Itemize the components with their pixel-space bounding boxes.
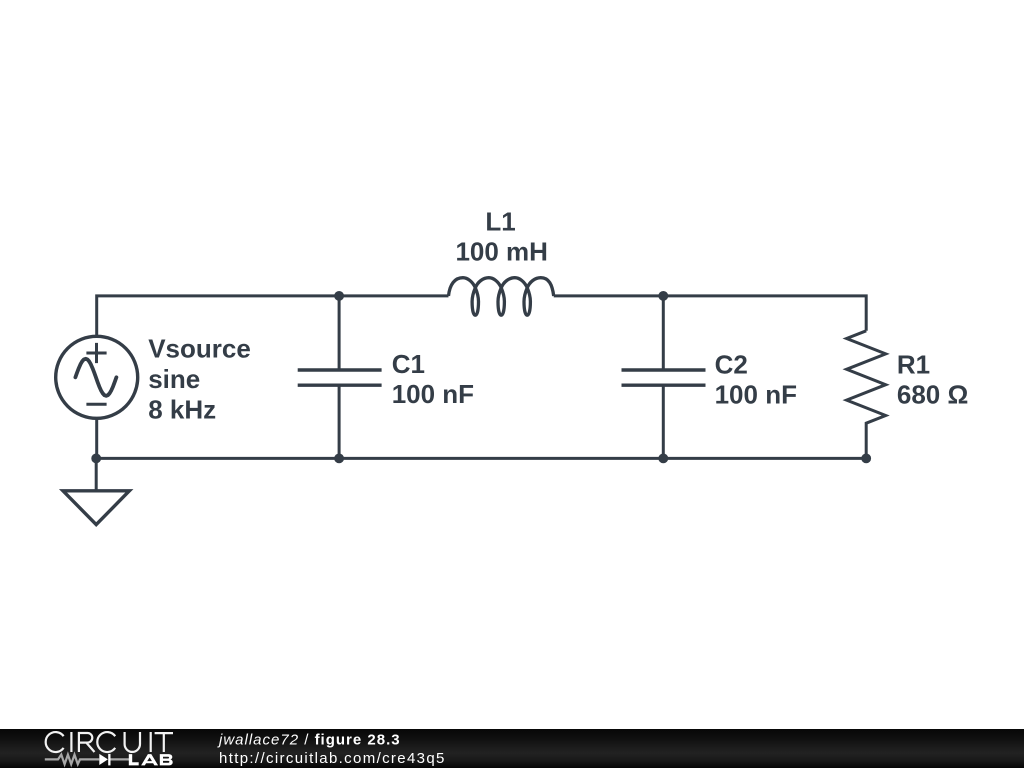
logo letter C xyxy=(46,732,64,752)
label C1 value 100 nF xyxy=(392,379,474,409)
capacitor C1 top lead xyxy=(338,296,341,370)
svg-text:http://circuitlab.com/cre43q5: http://circuitlab.com/cre43q5 xyxy=(219,750,446,767)
capacitor C2 bottom lead xyxy=(662,385,665,458)
label L1 value 100 mH xyxy=(455,236,548,266)
voltage source Vsource circle xyxy=(56,336,138,418)
capacitor C1 bottom lead xyxy=(338,385,341,458)
label L1 xyxy=(485,207,515,237)
wire top rail right: inductor to R1 corner xyxy=(554,296,867,331)
node: C2 top junction xyxy=(658,291,668,301)
logo letter T xyxy=(155,733,173,752)
node: C1 top junction xyxy=(334,291,344,301)
wire ground lead xyxy=(95,458,98,490)
wire source bottom lead xyxy=(95,418,98,459)
voltage source Vsource plus sign xyxy=(86,343,106,363)
capacitor C2 plates xyxy=(622,370,706,385)
logo letter R xyxy=(79,733,95,752)
label R1 xyxy=(897,350,930,380)
logo letter I (2nd) xyxy=(150,732,152,752)
logo diode symbol xyxy=(99,754,110,766)
voltage source Vsource minus sign xyxy=(86,403,106,406)
label C2 value 100 nF xyxy=(715,380,797,410)
footer url xyxy=(219,750,446,767)
node: source bottom junction xyxy=(91,454,101,464)
logo letter I xyxy=(70,732,72,752)
logo resistor squiggle xyxy=(45,755,100,765)
CircuitLab logo word CIRCUIT xyxy=(46,732,173,752)
node: C1 bottom junction xyxy=(334,454,344,464)
label Vsource type sine xyxy=(148,364,200,394)
label C1 xyxy=(392,349,425,379)
svg-text:jwallace72 / figure 28.3: jwallace72 / figure 28.3 xyxy=(217,731,401,748)
capacitor C2 top lead xyxy=(662,296,665,370)
capacitor C1 plates xyxy=(298,370,382,385)
wire top rail left: source top to inductor xyxy=(97,296,449,338)
label R1 value 680 ohm xyxy=(897,380,968,410)
logo letter C (2nd) xyxy=(97,732,115,752)
ground symbol xyxy=(63,491,129,525)
node: C2 bottom junction xyxy=(658,454,668,464)
label C2 xyxy=(715,350,748,380)
resistor R1 zigzag xyxy=(847,331,886,459)
logo diode wire to LAB xyxy=(111,758,130,760)
footer title: user / figure xyxy=(217,731,401,748)
wire bottom rail xyxy=(96,457,866,460)
footer bar xyxy=(0,729,1024,768)
node: R1 bottom junction xyxy=(861,454,871,464)
label Vsource name xyxy=(148,333,251,363)
logo letter U xyxy=(125,732,140,752)
voltage source Vsource sine symbol xyxy=(75,359,116,396)
label Vsource value 8 kHz xyxy=(148,394,216,424)
logo word LAB xyxy=(129,754,173,765)
inductor L1 coil xyxy=(449,278,554,316)
